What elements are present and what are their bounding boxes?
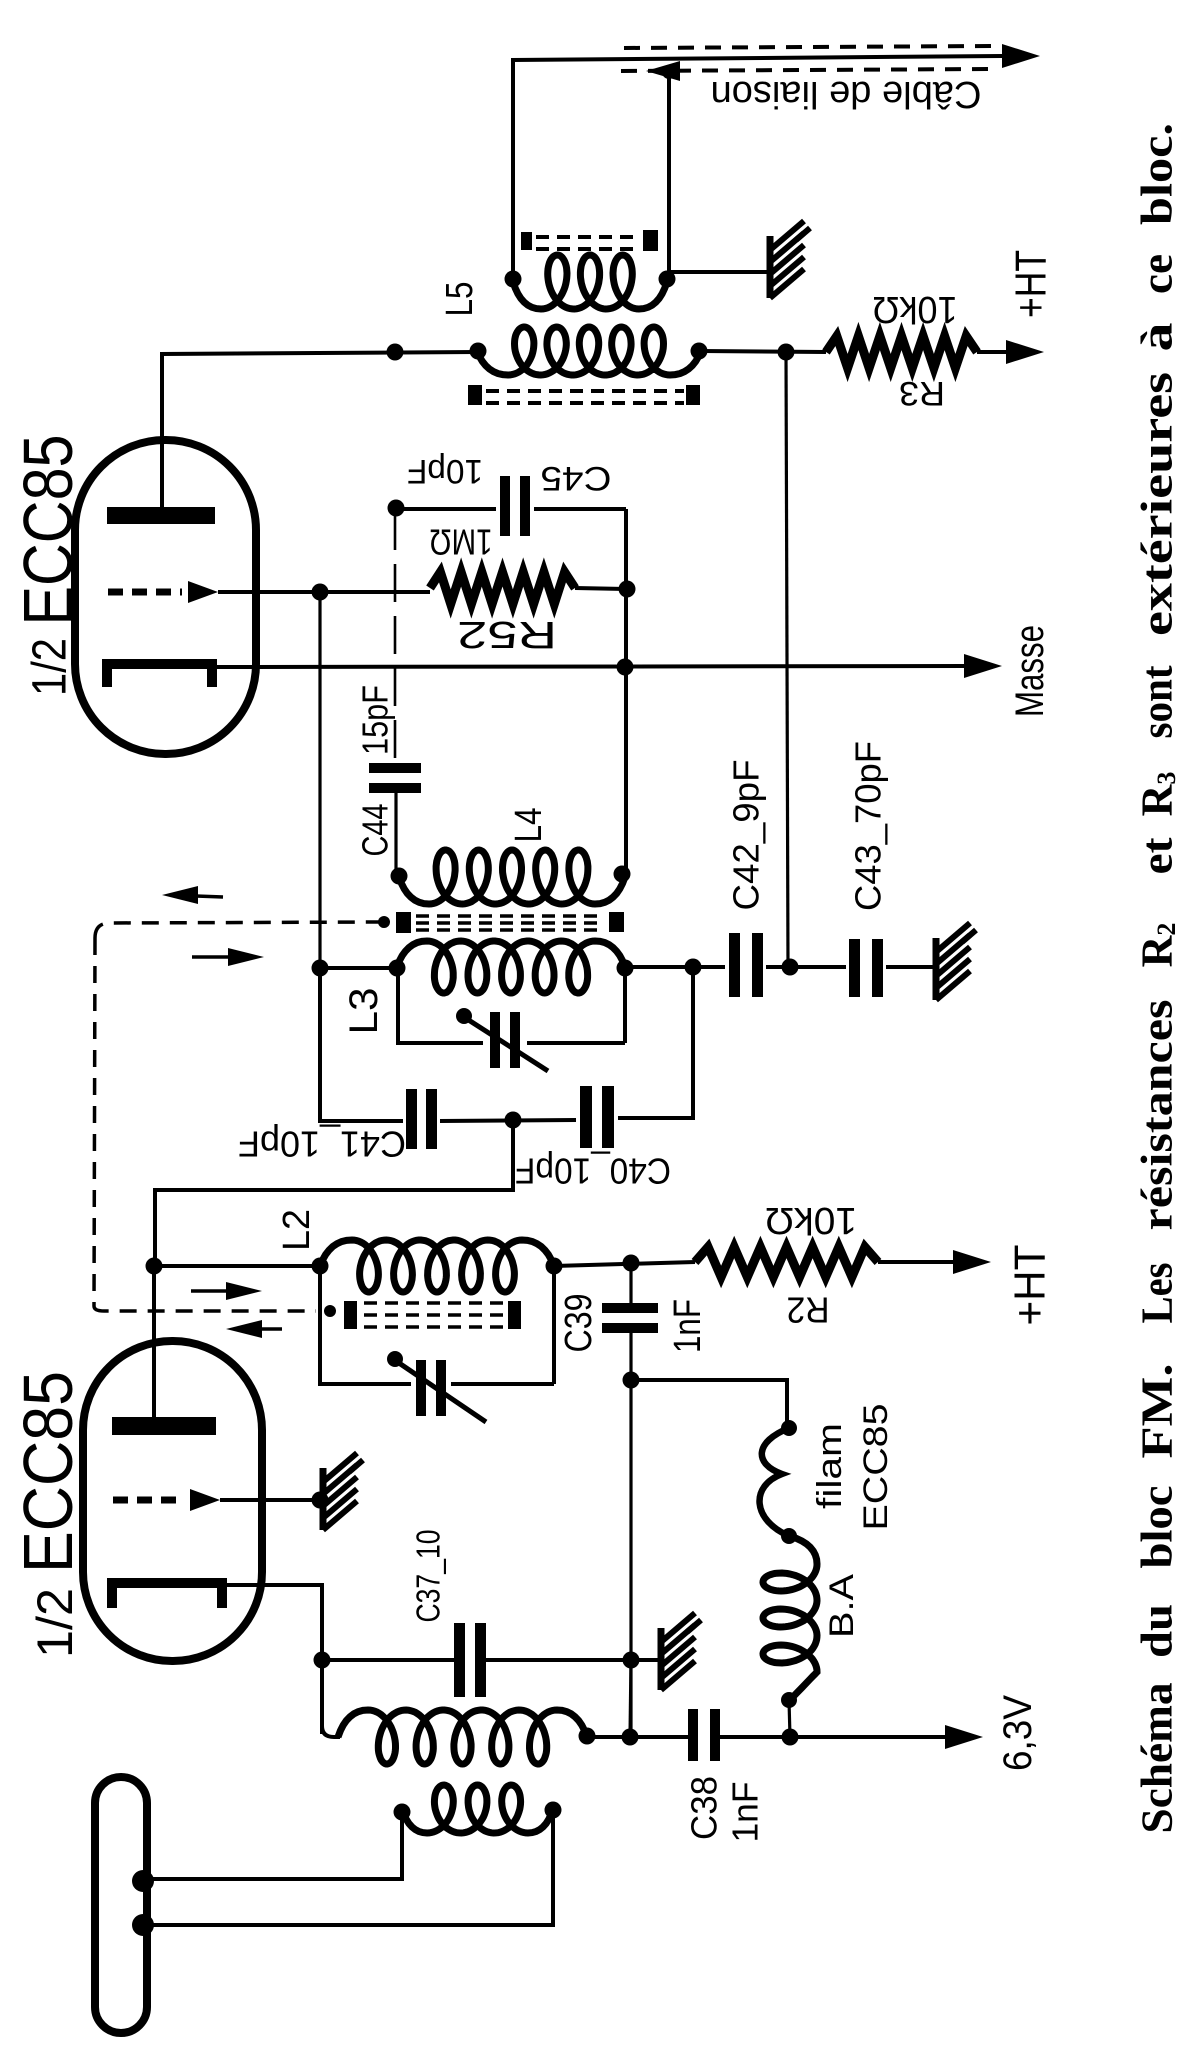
triode V1 anode plate [107, 507, 215, 524]
svg-text:à: à [1133, 323, 1182, 352]
node V2 anode junction [146, 1258, 163, 1275]
svg-text:Câble de liaison: Câble de liaison [711, 73, 982, 115]
wire ground node down [630, 1660, 631, 1737]
inductor L2 [312, 1240, 563, 1292]
svg-text:du: du [1133, 1604, 1182, 1658]
triode V1 anode lead [160, 440, 164, 507]
transformer L5 core lower [468, 385, 700, 405]
svg-text:C44: C44 [355, 804, 396, 857]
label L2 [276, 1209, 318, 1251]
svg-text:ce: ce [1133, 254, 1182, 294]
label Cable de liaison [711, 73, 982, 115]
wire C39 down [623, 1329, 640, 1389]
capacitor C39 [602, 1303, 658, 1333]
label C39 value 1nF [667, 1299, 709, 1353]
inductor L5 primary [470, 327, 708, 375]
wire filament branch top [631, 1380, 797, 1436]
svg-text:filam: filam [811, 1423, 849, 1509]
wire C42 to C43 [766, 959, 846, 976]
label C43 value [848, 741, 889, 911]
transformer L2 core [324, 1301, 521, 1329]
capacitor C42 [729, 933, 763, 997]
wire L5 secondary right to shield [662, 65, 676, 276]
label C45 value 10pF [407, 452, 483, 490]
wire Masse line [216, 654, 1002, 678]
wire C38 to 6.3V [712, 1725, 983, 1749]
wire L1 right down to antenna [152, 1810, 553, 1925]
inductor BA choke [763, 1536, 817, 1708]
label C39 [558, 1294, 600, 1353]
svg-text:Masse: Masse [1008, 625, 1052, 717]
label 1/2 ECC85 lower tube half [27, 1588, 83, 1658]
label C44 [355, 804, 396, 857]
svg-text:C43_70pF: C43_70pF [848, 741, 889, 911]
svg-text:+HT: +HT [1006, 1245, 1055, 1326]
svg-text:ECC85: ECC85 [9, 435, 87, 626]
wire anode V1 to L5 primary [162, 352, 477, 440]
triode V1 envelope [75, 440, 256, 754]
svg-text:et: et [1133, 837, 1182, 874]
node filament-BA junction [781, 1528, 797, 1544]
svg-text:C39: C39 [558, 1294, 600, 1353]
wire coax shield dashed upper [624, 46, 993, 48]
wire L2 to R2 [554, 1255, 695, 1272]
triode V1 cathode [107, 664, 212, 687]
svg-text:L5: L5 [439, 282, 481, 317]
svg-text:bloc: bloc [1133, 1486, 1182, 1569]
wire C40 right up to L3 right node [618, 968, 693, 1118]
wire anode node dashed drop to C44 [394, 512, 397, 764]
arrow gang upper-left [162, 886, 223, 904]
wire L1b left stub [322, 1726, 340, 1737]
svg-text:B.A: B.A [823, 1574, 861, 1638]
svg-text:C42_9pF: C42_9pF [726, 760, 767, 911]
svg-text:bloc.: bloc. [1133, 123, 1182, 225]
filament filam ECC85 [760, 1428, 789, 1536]
wire C44 to L4 [394, 788, 397, 875]
svg-text:L3: L3 [342, 988, 386, 1035]
label R3 value 10k [873, 288, 958, 330]
wire L3 left stub [312, 960, 406, 977]
svg-text:10pF: 10pF [407, 452, 483, 490]
wire node Masse vertical [624, 509, 628, 873]
wire L1 left down to antenna [152, 1812, 402, 1879]
inductor L3 [397, 941, 634, 993]
wire R2 to +HT [878, 1250, 991, 1274]
label Masse [1008, 625, 1052, 717]
wire L1b right to C38 line [587, 1729, 639, 1746]
transformer L5 core upper [521, 230, 658, 251]
label 1/2 ECC85 upper tube ECC85 [9, 435, 87, 626]
wire centre tap down to anode node [155, 1120, 513, 1266]
label R3 [899, 374, 945, 412]
label C44 value 15pF [355, 685, 396, 755]
caption text [1133, 123, 1182, 1834]
wire gang dashed bottom [94, 1306, 316, 1311]
svg-text:R52: R52 [457, 613, 557, 655]
svg-text:C38: C38 [684, 1776, 725, 1840]
svg-text:10kΩ: 10kΩ [765, 1199, 857, 1241]
wire grid node vertical to L3 [318, 592, 321, 968]
node L5 primary left junction [387, 344, 404, 361]
capacitor C44 [369, 763, 421, 793]
wire R3 to +HT [977, 340, 1044, 364]
svg-text:+HT: +HT [1007, 250, 1056, 318]
capacitor C41 [406, 1089, 437, 1149]
capacitor CV2 trimmer [387, 1351, 486, 1422]
arrow gang lower-right [191, 1282, 262, 1300]
svg-text:sont: sont [1133, 665, 1182, 738]
arrow gang lower-left [226, 1320, 282, 1338]
wire coax shield dashed lower [621, 61, 988, 81]
triode V1 grid [108, 581, 218, 603]
inductor L1 antenna coil [394, 1785, 562, 1833]
label ECC85 filament [857, 1404, 895, 1531]
svg-text:ECC85: ECC85 [857, 1404, 895, 1531]
inductor L1 secondary [338, 1710, 596, 1764]
wire coax cable centre conductor [512, 44, 1040, 68]
wire L2 tank right [451, 1266, 554, 1384]
label 1/2 ECC85 upper tube half [24, 638, 77, 696]
label +HT bottom [1006, 1245, 1055, 1326]
capacitor C40 [580, 1086, 614, 1148]
label R52 [457, 613, 557, 655]
label C45 [541, 459, 612, 497]
wire L5 primary to R3 [701, 351, 826, 352]
svg-text:C40_10pF: C40_10pF [515, 1151, 671, 1192]
wire C41 to C40 [440, 1112, 576, 1129]
svg-text:ECC85: ECC85 [9, 1371, 87, 1573]
wire V2 cathode out [222, 1585, 331, 1734]
wire C43 to ground [886, 965, 934, 969]
label R52 value 1M [430, 522, 493, 563]
label L4 [508, 808, 550, 843]
capacitor C38 [630, 1709, 720, 1761]
triode V2 anode lead [152, 1266, 156, 1417]
svg-text:1nF: 1nF [667, 1299, 709, 1353]
wire R2 node to C39 [629, 1263, 632, 1307]
wire C37 to ground node [476, 1652, 659, 1669]
inductor L4 [391, 850, 631, 904]
triode V2 anode plate [112, 1417, 216, 1435]
wire gang dashed vertical [94, 938, 95, 1306]
svg-text:R2: R2 [787, 1290, 830, 1331]
svg-text:extérieures: extérieures [1133, 372, 1182, 636]
wire L3 right to C42 [625, 959, 725, 976]
svg-text:L4: L4 [508, 808, 550, 843]
wire C39 node down to ground node [629, 1380, 632, 1737]
svg-text:1/2: 1/2 [27, 1588, 83, 1658]
capacitor C45 [500, 476, 530, 536]
label L5 [439, 282, 481, 317]
svg-text:C41_10pF: C41_10pF [238, 1124, 406, 1165]
label C41 value [238, 1124, 406, 1165]
transformer L3-L4 core [378, 912, 624, 933]
svg-text:C37_10: C37_10 [410, 1530, 447, 1623]
node R3 left junction [778, 344, 795, 361]
wire L5 secondary right to ground [669, 270, 768, 274]
wire V1 grid to R52 [218, 584, 430, 601]
svg-text:résistances: résistances [1133, 1000, 1182, 1231]
wire V2 grid to ground [220, 1492, 329, 1509]
capacitor CV3 trimmer [456, 1008, 548, 1071]
triode V2 grid [113, 1489, 220, 1511]
svg-text:FM.: FM. [1133, 1364, 1182, 1459]
wire gang dashed top [95, 922, 382, 938]
resistor R52 [430, 572, 575, 604]
label 1/2 ECC85 lower tube ECC85 [9, 1371, 87, 1573]
svg-text:Schéma: Schéma [1133, 1683, 1182, 1834]
wire C45 right [534, 507, 626, 511]
arrow gang upper-right [192, 948, 264, 966]
label +HT top [1007, 250, 1056, 318]
label R2 value 10k [765, 1199, 857, 1241]
wire R3 node vertical to C42-C43 [786, 352, 788, 967]
triode V2 envelope [83, 1341, 262, 1661]
svg-text:6,3V: 6,3V [996, 1695, 1040, 1771]
label C38 [684, 1776, 725, 1840]
ground L5 secondary [770, 221, 810, 298]
wire L3 trimmer branch [398, 968, 625, 1043]
wire C45 left [388, 500, 497, 517]
wire L2 tank left [320, 1266, 411, 1384]
svg-text:1MΩ: 1MΩ [430, 522, 493, 563]
antenna folded dipole [95, 1777, 154, 2033]
svg-text:Les: Les [1133, 1263, 1182, 1324]
svg-text:15pF: 15pF [355, 685, 396, 755]
resistor R2 [695, 1247, 878, 1277]
label L3 [342, 988, 386, 1035]
label filam [811, 1423, 849, 1509]
label 6.3V [996, 1695, 1040, 1771]
wire L3 node down to C41 [320, 968, 403, 1121]
label C40 value [515, 1151, 671, 1192]
label C37 value [410, 1530, 447, 1623]
triode V2 cathode [112, 1583, 222, 1608]
svg-text:1nF: 1nF [725, 1782, 766, 1843]
resistor R3 [826, 336, 977, 368]
svg-text:C45: C45 [541, 459, 612, 497]
svg-text:R3: R3 [899, 374, 945, 412]
svg-text:1/2: 1/2 [24, 638, 77, 696]
ground C43 [936, 923, 976, 1000]
ground V2 grid [323, 1453, 363, 1530]
inductor L5 secondary [505, 255, 676, 309]
capacitor C37 [322, 1623, 486, 1697]
svg-text:10kΩ: 10kΩ [873, 288, 958, 330]
wire L5 secondary left to cable [511, 58, 515, 276]
capacitor C43 [849, 939, 883, 997]
label C38 value 1nF [725, 1782, 766, 1843]
ground cathode node [661, 1613, 701, 1690]
label B.A [823, 1574, 861, 1638]
wire R52 right [575, 581, 636, 598]
label C42 value [726, 760, 767, 911]
wire anode node to L2 [154, 1264, 320, 1268]
svg-text:L2: L2 [276, 1209, 318, 1251]
label R2 [787, 1290, 830, 1331]
wire BA to 6.3V line [789, 1700, 790, 1737]
